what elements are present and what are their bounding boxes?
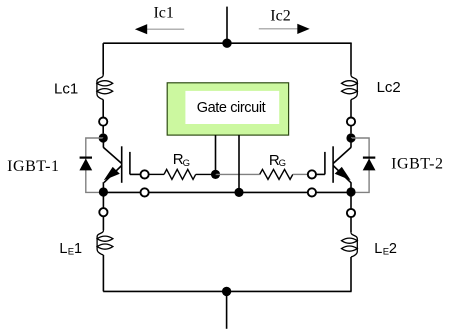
svg-text:G: G (183, 158, 190, 169)
svg-text:IGBT-1: IGBT-1 (7, 158, 60, 175)
svg-text:IGBT-2: IGBT-2 (391, 156, 444, 173)
svg-text:2: 2 (389, 241, 397, 257)
svg-text:Ic1: Ic1 (153, 4, 173, 21)
svg-text:G: G (279, 158, 286, 169)
svg-text:L: L (59, 241, 67, 257)
svg-text:Lc2: Lc2 (377, 79, 401, 96)
svg-text:Ic2: Ic2 (270, 8, 290, 25)
svg-text:1: 1 (74, 241, 82, 257)
svg-text:L: L (374, 241, 382, 257)
svg-text:Gate circuit: Gate circuit (197, 100, 266, 116)
svg-text:Lc1: Lc1 (54, 81, 78, 98)
